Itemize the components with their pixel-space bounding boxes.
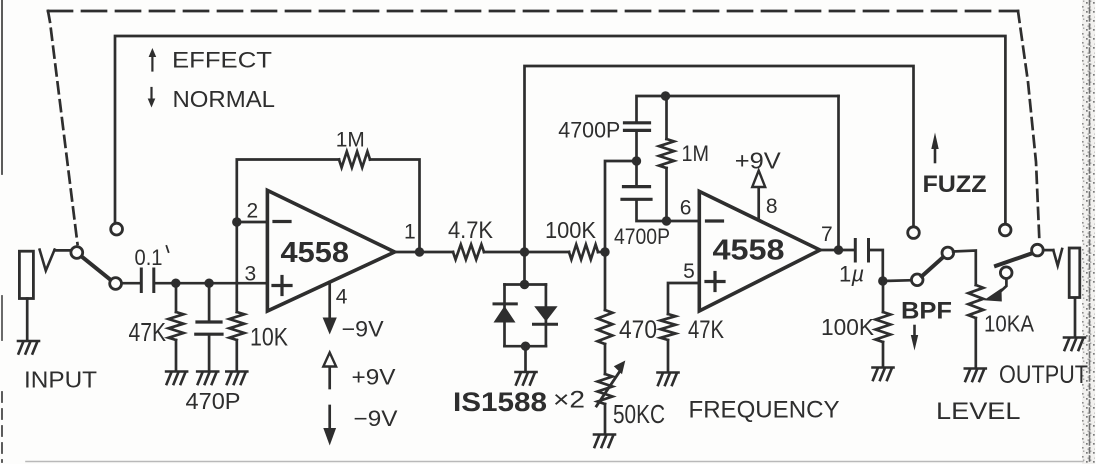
arrow FUZZ up xyxy=(931,133,938,163)
scan bottom rule xyxy=(26,461,1083,463)
potentiometer VR2 10KA xyxy=(968,285,983,367)
wire jack to switch xyxy=(55,249,71,252)
switch S3 throw upper xyxy=(999,224,1011,236)
plus sign pin5 xyxy=(706,273,724,291)
svg-text:10KA: 10KA xyxy=(984,311,1035,337)
svg-text:FREQUENCY: FREQUENCY xyxy=(689,397,840,424)
output jack J2 xyxy=(1069,248,1080,336)
wire node to switch S2 throw xyxy=(883,279,912,282)
resistor R9 100K xyxy=(876,281,891,366)
wire pin7 output xyxy=(820,249,854,252)
wire feedback riser xyxy=(837,96,840,250)
wire throw to C1 xyxy=(122,282,140,285)
MFB filter node A xyxy=(632,156,641,165)
svg-text:4558: 4558 xyxy=(713,235,785,267)
ground input jack xyxy=(18,341,39,354)
ground output jack xyxy=(1064,338,1085,351)
wire 4.7K to node xyxy=(484,251,569,254)
svg-text:100K: 100K xyxy=(545,217,597,243)
switch S3 pole xyxy=(1032,244,1044,256)
svg-text:470: 470 xyxy=(619,316,657,344)
switch S1a throw lower xyxy=(110,278,122,290)
switch S2 lever xyxy=(922,256,944,276)
node frequency tap xyxy=(600,247,609,256)
svg-text:5: 5 xyxy=(683,260,695,283)
label V input jack contact xyxy=(40,250,55,271)
svg-text:4558: 4558 xyxy=(281,237,350,269)
wire pin2 xyxy=(237,221,268,224)
svg-text:1M: 1M xyxy=(682,141,710,166)
svg-text:0.1: 0.1 xyxy=(135,245,163,270)
ground R9 xyxy=(873,368,894,381)
wire bypass line EFFECT y36 xyxy=(115,36,1005,224)
scan page border left xyxy=(1,0,3,462)
resistor R5 100K xyxy=(569,245,598,260)
node MFB top xyxy=(661,91,670,100)
capacitor C1 0.1 xyxy=(141,269,154,292)
svg-text:1: 1 xyxy=(404,221,416,244)
wire FUZZ tap line y66 xyxy=(525,66,914,252)
diode D2 IS1588 (down) xyxy=(534,306,558,324)
op-amp U1a feedback loop with resistor R3 1M xyxy=(237,152,420,253)
svg-text:47K: 47K xyxy=(129,317,167,347)
svg-text:BPF: BPF xyxy=(901,298,952,325)
node diode box bottom xyxy=(521,342,530,351)
svg-text:100K: 100K xyxy=(821,314,875,340)
svg-text:×2: ×2 xyxy=(553,387,585,414)
svg-text:8: 8 xyxy=(766,195,778,218)
svg-text:50KC: 50KC xyxy=(613,399,665,429)
legend +9V up arrow xyxy=(323,353,336,389)
svg-text:−9V: −9V xyxy=(354,406,398,431)
resistor R4 4.7K xyxy=(453,245,484,260)
pin8 +9V arrow xyxy=(752,171,765,220)
svg-text:4700P: 4700P xyxy=(558,118,620,143)
switch S1a lever xyxy=(82,257,111,280)
svg-text:3: 3 xyxy=(245,263,257,286)
svg-text:2: 2 xyxy=(247,200,259,223)
capacitor C3 4700P top xyxy=(625,96,839,161)
node level tap xyxy=(878,276,887,285)
node diode box top xyxy=(520,280,529,289)
node diode tap xyxy=(520,247,529,256)
label prime tick after 0.1 xyxy=(167,246,169,252)
svg-text:LEVEL: LEVEL xyxy=(936,398,1021,425)
node at 470P xyxy=(204,279,213,288)
op-amp U1b 4558 xyxy=(699,191,820,311)
svg-text:+9V: +9V xyxy=(352,365,396,390)
pin4 -9V arrow xyxy=(323,282,337,335)
node at 47K xyxy=(171,279,180,288)
svg-text:−9V: −9V xyxy=(342,317,384,342)
node pin1 output xyxy=(415,247,424,256)
resistor R7 1M feedback xyxy=(659,96,674,221)
svg-text:1M: 1M xyxy=(336,129,365,152)
switch S2 pole xyxy=(942,247,954,259)
capacitor C5 1u xyxy=(855,240,868,262)
ground C2 xyxy=(197,372,218,385)
scan gutter speckle band right xyxy=(1082,0,1095,464)
resistor R2 10K (pin2 bias leg crossing pin3 wire) xyxy=(229,222,244,370)
switch S3 throw lower xyxy=(1000,267,1012,279)
svg-text:470P: 470P xyxy=(186,388,241,414)
capacitor C2 470P xyxy=(196,283,222,370)
wire C5 to node xyxy=(870,250,883,281)
node pin2 xyxy=(232,217,241,226)
svg-text:NORMAL: NORMAL xyxy=(173,86,276,112)
wire 100K to node xyxy=(598,251,605,254)
ground diodes xyxy=(516,372,537,385)
resistor R1 47K xyxy=(169,283,184,370)
dashed link to input switch xyxy=(48,11,78,244)
switch S2 throw lower xyxy=(911,274,923,286)
wiper arrow VR2 xyxy=(984,279,1007,302)
capacitor C4 4700P bottom xyxy=(622,161,699,221)
svg-text:10K: 10K xyxy=(250,324,288,352)
svg-text:4: 4 xyxy=(336,286,348,309)
svg-text:OUTPUT: OUTPUT xyxy=(999,361,1088,389)
wire pole to pot xyxy=(953,251,976,286)
plus sign pin3 xyxy=(273,277,291,295)
ground VR2 xyxy=(965,369,986,382)
minus sign pin6 xyxy=(707,219,723,222)
svg-text:IS1588: IS1588 xyxy=(453,387,547,417)
input jack J1 xyxy=(19,251,33,340)
minus sign pin2 xyxy=(274,220,290,223)
svg-text:47K: 47K xyxy=(688,316,724,344)
switch S1a throw upper xyxy=(111,223,123,235)
arrow EFFECT up xyxy=(149,48,157,71)
ground R8 xyxy=(658,373,679,386)
wire pole to jack xyxy=(1043,249,1053,252)
svg-text:INPUT: INPUT xyxy=(24,367,97,393)
wire pin5 with resistor R8 47K xyxy=(661,283,700,371)
arrow BPF down xyxy=(911,326,918,351)
svg-text:4700P: 4700P xyxy=(614,224,670,249)
svg-text:µ: µ xyxy=(851,262,865,287)
svg-text:7: 7 xyxy=(821,223,833,246)
wire diode to ground xyxy=(524,346,527,370)
legend -9V down arrow xyxy=(323,406,336,446)
wire node up to filter node A xyxy=(605,161,637,252)
op-amp U1a 4558 xyxy=(267,190,394,311)
diode box loop xyxy=(505,283,546,286)
switch S3 lever xyxy=(996,253,1034,266)
diode D1 IS1588 (up) xyxy=(494,304,517,323)
switch S2 throw upper xyxy=(908,227,920,239)
ground VR1 xyxy=(594,435,615,448)
svg-text:EFFECT: EFFECT xyxy=(172,48,272,73)
ground R1 xyxy=(166,372,187,385)
resistor R6 470 xyxy=(598,252,613,374)
variable resistor VR1 50KC xyxy=(597,361,626,434)
node pin7 xyxy=(834,245,843,254)
arrow NORMAL down xyxy=(148,88,156,108)
label V output jack contact xyxy=(1053,249,1062,266)
switch S1a pole xyxy=(71,247,83,259)
dashed link to output switch xyxy=(1018,11,1040,244)
svg-text:+9V: +9V xyxy=(735,148,782,174)
ground R2 xyxy=(226,372,247,385)
node pin6 xyxy=(662,216,671,225)
dashed footswitch link top border xyxy=(48,10,1018,13)
wire pin1 to 4.7K xyxy=(395,251,453,254)
svg-text:1: 1 xyxy=(839,262,851,287)
wire C1 to op-amp pin3 xyxy=(155,282,267,285)
diode clipper branch wire xyxy=(523,252,526,285)
svg-text:FUZZ: FUZZ xyxy=(923,171,987,198)
svg-text:4.7K: 4.7K xyxy=(448,217,493,244)
svg-text:6: 6 xyxy=(680,197,692,220)
